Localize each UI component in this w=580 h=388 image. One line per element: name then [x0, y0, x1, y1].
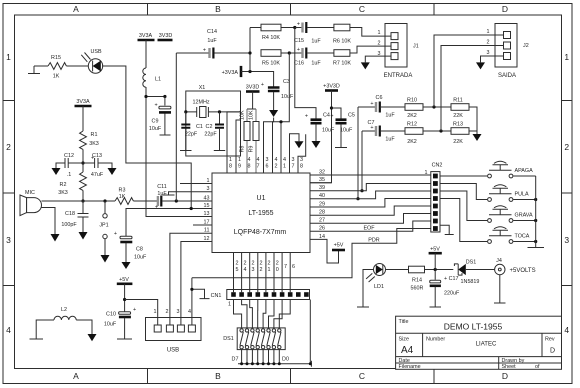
wires network to LED rail [242, 349, 280, 364]
svg-text:J2: J2 [523, 43, 529, 49]
ground arrow (C8) [122, 262, 131, 269]
wire (R11/R13 right commons to gnd) [469, 107, 477, 134]
connector CN1 [211, 290, 310, 308]
node (C14 feed tap) [175, 199, 178, 202]
svg-text:7: 7 [292, 164, 295, 170]
svg-text:1: 1 [487, 29, 490, 35]
wire (C11 to U1 pin 43) [162, 200, 212, 202]
ground arrow (pin37) [295, 141, 304, 148]
svg-text:USB: USB [167, 348, 179, 354]
ground arrow (J2) [476, 62, 485, 69]
svg-text:3: 3 [252, 267, 255, 273]
svg-text:A4: A4 [401, 345, 414, 356]
svg-text:C16: C16 [294, 61, 304, 67]
svg-text:7: 7 [257, 164, 260, 170]
svg-text:2: 2 [6, 142, 11, 152]
svg-text:Rev: Rev [545, 337, 555, 343]
svg-text:7: 7 [284, 264, 287, 270]
svg-text:13: 13 [204, 211, 210, 217]
svg-text:DEMO LT-1955: DEMO LT-1955 [444, 322, 503, 332]
inductor L2 [54, 316, 76, 320]
resistor R13 22K [451, 128, 469, 135]
wire (J2 pin3 gnd) [481, 56, 504, 62]
svg-text:C14: C14 [207, 29, 217, 35]
svg-text:Sheet: Sheet [502, 364, 517, 370]
svg-text:R14: R14 [412, 278, 422, 284]
ground (left of R15) [28, 66, 40, 74]
svg-text:+5V: +5V [119, 277, 129, 283]
wire [98, 163, 112, 168]
svg-text:3: 3 [266, 157, 269, 163]
svg-text:3V3A: 3V3A [76, 99, 90, 105]
svg-text:C11: C11 [157, 184, 167, 190]
svg-text:C4: C4 [323, 113, 330, 119]
wire (R4/R5 junction riser) [249, 28, 251, 72]
svg-text:R9: R9 [249, 146, 255, 153]
svg-text:R7 10K: R7 10K [333, 61, 351, 67]
zone divider ticks bottom [148, 369, 435, 384]
svg-text:1: 1 [268, 267, 271, 273]
svg-text:43: 43 [204, 196, 210, 202]
svg-text:2K2: 2K2 [407, 113, 417, 119]
svg-text:3: 3 [378, 51, 381, 57]
svg-text:C10: C10 [106, 312, 116, 318]
svg-text:2K2: 2K2 [407, 139, 417, 145]
node (R2 to mic line) [81, 199, 84, 202]
svg-text:of: of [535, 364, 540, 370]
pin 17 stub [193, 224, 212, 226]
ground arrow (J1) [361, 62, 370, 69]
svg-text:8: 8 [229, 164, 232, 170]
svg-text:A: A [73, 4, 79, 14]
svg-text:+: + [297, 22, 300, 28]
svg-text:LT-1955: LT-1955 [248, 210, 273, 217]
capacitor C16 1uF [289, 52, 302, 54]
node C15 [293, 26, 296, 29]
svg-text:26: 26 [319, 226, 325, 232]
capacitor C7 1uF [362, 130, 376, 132]
svg-text:1: 1 [238, 157, 241, 163]
svg-text:2: 2 [236, 261, 239, 267]
resistor R8 10K [244, 122, 250, 141]
svg-text:35: 35 [319, 177, 325, 183]
wire (C14 feed riser) [175, 53, 177, 201]
wire (CN2 gnd bracket) [440, 225, 454, 234]
svg-text:TOCA: TOCA [515, 234, 530, 240]
svg-text:22K: 22K [453, 139, 463, 145]
svg-text:R1: R1 [91, 132, 98, 138]
connector J4 [495, 258, 536, 275]
resistor R1 3K3 [80, 131, 87, 149]
svg-text:3: 3 [292, 157, 295, 163]
capacitor C15 1uF [295, 27, 302, 29]
svg-text:2: 2 [252, 261, 255, 267]
resistor R4 10K [250, 27, 261, 29]
box X1 [186, 91, 241, 156]
wire (USB pin4 riser) [191, 278, 193, 325]
svg-text:SAIDA: SAIDA [498, 73, 516, 79]
svg-text:D: D [502, 4, 508, 14]
svg-text:+: + [155, 103, 158, 109]
svg-text:2: 2 [268, 261, 271, 267]
wire (pin38 stair) [298, 134, 306, 173]
svg-text:10uF: 10uF [149, 126, 162, 132]
power rail +5V (input) [429, 252, 442, 255]
svg-text:22K: 22K [453, 113, 463, 119]
wire (button common rail) + ground [528, 176, 545, 248]
connector USB [146, 309, 202, 354]
svg-text:Size: Size [399, 337, 410, 343]
switch TOCA [440, 199, 537, 244]
svg-text:10uF: 10uF [340, 128, 353, 134]
svg-text:D0: D0 [282, 357, 289, 363]
svg-text:12MHz: 12MHz [192, 100, 209, 106]
wire [425, 269, 454, 271]
svg-text:10uF: 10uF [281, 94, 294, 100]
svg-text:4: 4 [6, 325, 11, 335]
svg-text:PULA: PULA [515, 192, 529, 198]
svg-text:2: 2 [564, 142, 569, 152]
LED USB [81, 49, 102, 73]
svg-text:D: D [550, 348, 555, 355]
svg-text:R12: R12 [407, 122, 417, 128]
pin 40 row to CN2 [310, 191, 431, 199]
svg-text:R10: R10 [407, 98, 417, 104]
svg-text:32: 32 [319, 170, 325, 176]
svg-text:2: 2 [275, 164, 278, 170]
wire (J2 pin1 drop) [434, 35, 504, 107]
wire (pin19 col to crystal box) [236, 120, 241, 173]
svg-text:CN1: CN1 [211, 293, 222, 299]
wire (+3V3D down to pin35 row) [310, 91, 332, 183]
svg-text:EOF: EOF [363, 226, 375, 232]
zone divider ticks top [148, 4, 435, 16]
wire (J1 pin3 to gnd) [365, 56, 391, 62]
svg-text:MIC: MIC [25, 190, 35, 196]
svg-text:2: 2 [487, 40, 490, 46]
svg-text:+: + [114, 231, 117, 237]
resistor R15 [48, 63, 66, 70]
svg-text:+: + [155, 205, 158, 211]
svg-text:1: 1 [229, 157, 232, 163]
svg-text:R15: R15 [51, 55, 61, 61]
svg-text:1uF: 1uF [385, 113, 395, 119]
svg-text:1: 1 [283, 164, 286, 170]
svg-text:A: A [73, 371, 79, 381]
svg-text:1: 1 [6, 52, 11, 62]
pin 28 row to CN2 [310, 206, 431, 215]
svg-text:.1: .1 [67, 172, 72, 178]
pin 35 row to +3V3D riser [310, 182, 332, 184]
svg-text:22pF: 22pF [185, 132, 198, 138]
svg-text:1: 1 [228, 302, 231, 308]
svg-text:R5 10K: R5 10K [262, 61, 280, 67]
svg-text:1: 1 [564, 52, 569, 62]
svg-text:+ C17: + C17 [444, 276, 459, 282]
svg-text:4: 4 [188, 309, 191, 315]
wire (to USB pin1) [125, 300, 158, 326]
svg-text:DS1: DS1 [223, 336, 234, 342]
svg-text:1uF: 1uF [385, 137, 395, 143]
svg-text:40: 40 [319, 193, 325, 199]
svg-text:2: 2 [260, 267, 263, 273]
resistor R3 1K [115, 198, 133, 205]
svg-text:Number: Number [426, 337, 445, 343]
svg-text:220uF: 220uF [444, 291, 460, 297]
power rail +3V3D (C5) [325, 89, 338, 92]
pin labels bottom (25 24 23 22 21 20 7 6) [236, 261, 296, 274]
capacitor C4 10uF [311, 120, 322, 124]
svg-text:C2: C2 [206, 124, 213, 130]
connector J2 [487, 24, 529, 80]
svg-text:1uF: 1uF [311, 39, 321, 45]
wire [66, 65, 88, 67]
capacitor C3 10uF [268, 88, 280, 92]
diode DS1 1N5819 [454, 260, 494, 286]
microphone MIC [20, 190, 42, 216]
svg-text:47uF: 47uF [91, 172, 104, 178]
svg-text:LQFP48-7X7mm: LQFP48-7X7mm [234, 229, 287, 236]
wire [385, 269, 408, 271]
svg-text:C8: C8 [136, 247, 143, 253]
wires CN1 to resistor network (braid) [234, 300, 242, 328]
pin 14 row to +5V [310, 239, 339, 263]
crystal X1 12MHz [186, 107, 241, 117]
svg-text:C18: C18 [65, 211, 75, 217]
svg-text:8: 8 [248, 164, 251, 170]
svg-text:+: + [261, 82, 264, 88]
svg-text:10uF: 10uF [104, 322, 117, 328]
svg-text:1: 1 [154, 309, 157, 315]
wire [241, 72, 274, 88]
title block [396, 316, 562, 370]
svg-text:39: 39 [319, 185, 325, 191]
svg-text:3: 3 [487, 50, 490, 56]
wire (CN1 right drop) [309, 300, 311, 364]
svg-text:R11: R11 [453, 98, 463, 104]
svg-text:2: 2 [166, 309, 169, 315]
svg-text:C7: C7 [368, 120, 375, 126]
switch APAGA [440, 161, 536, 178]
svg-text:1: 1 [425, 170, 428, 176]
wire (C16 node to pin42) [273, 53, 290, 173]
svg-text:J4: J4 [496, 258, 502, 264]
wire [34, 65, 48, 67]
connector J1 [378, 24, 419, 80]
wire (CN1 left gnd bracket) [192, 289, 210, 298]
svg-text:+: + [370, 101, 373, 107]
svg-text:10K: 10K [249, 110, 255, 120]
ground arrow (mic) [51, 234, 60, 242]
svg-text:APAGA: APAGA [515, 168, 534, 174]
pin 39 row to CN2 [310, 184, 431, 191]
svg-text:2: 2 [378, 41, 381, 47]
wire (J4 gnd) [494, 275, 506, 303]
resistor R11 22K [451, 104, 469, 111]
node [184, 110, 187, 113]
capacitor C6 1uF [358, 106, 376, 108]
ground arrow (C3) [269, 110, 278, 117]
ground arrow (JP1) [101, 255, 110, 263]
resistor network DS1 [223, 328, 285, 350]
capacitor C9 10uF [159, 106, 171, 109]
svg-text:28: 28 [319, 210, 325, 216]
svg-text:+5V: +5V [430, 247, 440, 253]
svg-text:14: 14 [319, 234, 325, 240]
pin 29 row to CN2 [310, 199, 431, 208]
svg-text:+: + [297, 47, 300, 53]
power rail 3V3A [138, 39, 155, 42]
svg-text:C13: C13 [92, 153, 102, 159]
svg-text:ENTRADA: ENTRADA [384, 73, 413, 79]
wire (L1 down then to pin13 row) [146, 87, 212, 217]
pin 12 wire (to USB D+) [181, 242, 212, 326]
wire (C6 drop to pin40 row) [357, 107, 359, 199]
svg-text:10uF: 10uF [322, 128, 335, 134]
ground arrow (L2) [88, 334, 97, 341]
svg-text:9: 9 [238, 164, 241, 170]
pin 1 stub [180, 183, 212, 185]
capacitor C13 47uF [83, 162, 95, 164]
capacitor C2 22pF [219, 112, 221, 124]
svg-text:CN2: CN2 [432, 163, 443, 169]
svg-text:3: 3 [300, 157, 303, 163]
svg-text:C: C [359, 4, 365, 14]
wire [82, 149, 84, 172]
svg-text:3: 3 [177, 309, 180, 315]
svg-text:27: 27 [319, 218, 325, 224]
svg-text:R6 10K: R6 10K [333, 39, 351, 45]
capacitor C12 .1 [65, 158, 68, 168]
wire [273, 92, 275, 110]
pin labels left (1 3 43 15 13 17 11 12) [204, 178, 210, 242]
svg-text:JP1: JP1 [99, 223, 108, 229]
power rail 3V3D (R8/R9) [246, 90, 260, 93]
capacitor C14 1uF [208, 48, 210, 58]
ground arrow (C12) [52, 168, 61, 175]
capacitor C11 1uF [157, 196, 159, 206]
svg-text:U1: U1 [257, 195, 266, 202]
wire (LED rail) [238, 361, 311, 367]
capacitor C10 10uF [119, 312, 131, 315]
svg-text:1uF: 1uF [157, 191, 167, 197]
svg-text:4: 4 [248, 157, 251, 163]
svg-text:D7: D7 [232, 357, 239, 363]
zone divider ticks left [3, 101, 15, 286]
svg-text:L1: L1 [155, 77, 161, 83]
svg-text:C12: C12 [64, 153, 74, 159]
node (JP1 tap) [103, 199, 106, 202]
svg-text:R8: R8 [239, 146, 245, 153]
svg-text:PDR: PDR [368, 238, 379, 244]
ground arrow (C18) [79, 232, 88, 240]
svg-text:3: 3 [564, 235, 569, 245]
capacitor C18 100pF [78, 214, 89, 218]
svg-text:R4 10K: R4 10K [262, 35, 280, 41]
node (bias mid) [81, 161, 84, 164]
svg-text:C: C [359, 371, 365, 381]
inductor L1 [143, 68, 146, 87]
svg-text:+: + [305, 114, 308, 120]
power rail +5V (USB) [117, 282, 133, 285]
svg-text:10uF: 10uF [134, 255, 147, 261]
svg-text:C5: C5 [348, 113, 355, 119]
svg-text:560R: 560R [411, 286, 424, 292]
ground arrow (C13) [108, 168, 117, 175]
resistor R9 10K [253, 122, 259, 141]
wire (mic signal) [42, 200, 116, 202]
resistor R7 10K [334, 50, 350, 57]
svg-text:29: 29 [319, 202, 325, 208]
wire (R6 to J1 pin1) [350, 28, 391, 37]
pin 15 row (C8 / LED) [126, 209, 212, 237]
wire (C7 drop to pin39 row) [361, 131, 363, 191]
svg-text:3V3D: 3V3D [246, 85, 260, 91]
svg-text:L2: L2 [61, 307, 67, 313]
pin 27 row to CN2 [310, 214, 431, 224]
wire [82, 106, 84, 131]
svg-text:3K3: 3K3 [89, 141, 99, 147]
switch GRAVA [440, 191, 537, 222]
resistor R5 10K [261, 50, 281, 57]
svg-text:+: + [133, 307, 136, 313]
svg-text:8: 8 [300, 164, 303, 170]
svg-text:C15: C15 [294, 38, 304, 44]
wire (pin41 stub) [280, 122, 282, 173]
wire PDR (USB pin4 net) [192, 229, 431, 278]
svg-text:1K: 1K [119, 194, 126, 200]
ground arrow (R11/R13) [473, 134, 482, 141]
wire (pin18 col to crystal) [227, 112, 241, 173]
resistor R14 560R [409, 266, 425, 273]
pin 11 wire (to USB D-) [170, 233, 212, 325]
wire (pin48 col) [246, 109, 248, 173]
svg-text:B: B [215, 4, 221, 14]
svg-text:GRAVA: GRAVA [515, 213, 533, 219]
svg-text:0: 0 [276, 267, 279, 273]
wire [145, 40, 147, 68]
svg-text:1N5819: 1N5819 [461, 279, 480, 285]
svg-text:3: 3 [6, 235, 11, 245]
wire (LD1 left to gnd) [357, 270, 374, 308]
pin labels top (18 19 48 47 36 42 41 37 38) [229, 157, 303, 170]
resistor R6 10K [334, 24, 350, 31]
capacitor C8 10uF [120, 236, 132, 239]
resistor R12 2K2 [405, 128, 423, 135]
svg-text:Title: Title [399, 319, 409, 325]
svg-text:2: 2 [276, 261, 279, 267]
svg-text:4: 4 [275, 157, 278, 163]
svg-text:1: 1 [378, 30, 381, 36]
svg-text:Filename: Filename [399, 364, 421, 370]
svg-text:B: B [215, 371, 221, 381]
svg-text:R13: R13 [453, 122, 463, 128]
wire + ground (C9) [160, 114, 171, 136]
power rail 3V3A (bias) [75, 105, 92, 108]
svg-text:4: 4 [257, 157, 260, 163]
svg-text:1K: 1K [53, 74, 60, 80]
wire (pin37 to gnd arrow) [290, 134, 300, 173]
wire [164, 97, 166, 106]
svg-text:22pF: 22pF [204, 132, 217, 138]
jumper JP1 [104, 201, 106, 214]
svg-text:+5V: +5V [334, 243, 344, 249]
LED LD1 [366, 264, 385, 291]
svg-text:3K3: 3K3 [58, 190, 68, 196]
wire (J2 pin2 drop) [441, 46, 504, 132]
capacitor C1 22pF [185, 112, 187, 124]
svg-text:+: + [330, 114, 333, 120]
